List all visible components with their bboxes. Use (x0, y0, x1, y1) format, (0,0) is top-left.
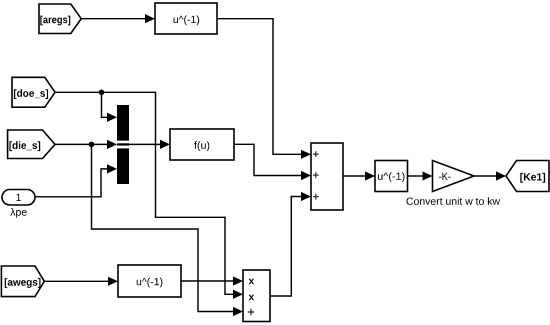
goto tag [Ke1] (506, 161, 549, 192)
math block U1 u^(-1) top (155, 3, 217, 34)
wire u^(-1) right to gain (408, 171, 433, 180)
wire gain to Ke1 (474, 171, 506, 180)
wire doe_s main run to product in2 (55, 92, 243, 299)
mux M1 (black bar) (117, 105, 129, 184)
wire f(u) to sum in2 (234, 144, 311, 180)
from tag [awegs] (1, 266, 44, 297)
wire mux to f(u) (129, 140, 170, 149)
wire u^(-1) bottom to product in1 (181, 276, 243, 285)
wire product to sum in3 (270, 192, 311, 296)
product block P1 (243, 270, 270, 322)
from tag [aregs] (39, 4, 81, 34)
wire doe_s branch to mux in1 (102, 92, 118, 122)
fcn block f(u) (170, 129, 234, 160)
math block U2 u^(-1) bottom (118, 265, 181, 297)
junction node on die_s wire (89, 142, 95, 148)
label lambda-pe (10, 208, 26, 218)
gain block -K- (433, 161, 475, 192)
wire die_s branch to product in3 (92, 144, 244, 316)
from tag [die_s] (8, 130, 55, 159)
wire sum to u^(-1) right (343, 171, 375, 180)
from tag [doe_s] (12, 77, 55, 107)
wire die_s to mux in2 (55, 140, 117, 149)
sum block S1 (311, 143, 343, 210)
label Convert unit w to kw (407, 197, 501, 205)
constant block 1 (lambda pe) (2, 190, 35, 206)
junction node on doe_s wire (99, 90, 105, 96)
wire u^(-1) top to sum in1 (217, 19, 311, 159)
wire constant to mux in3 (35, 164, 117, 197)
wire awegs to u^(-1) bottom (44, 277, 118, 286)
wire aregs to u^(-1) top (81, 14, 155, 23)
math block U3 u^(-1) right (375, 161, 408, 192)
